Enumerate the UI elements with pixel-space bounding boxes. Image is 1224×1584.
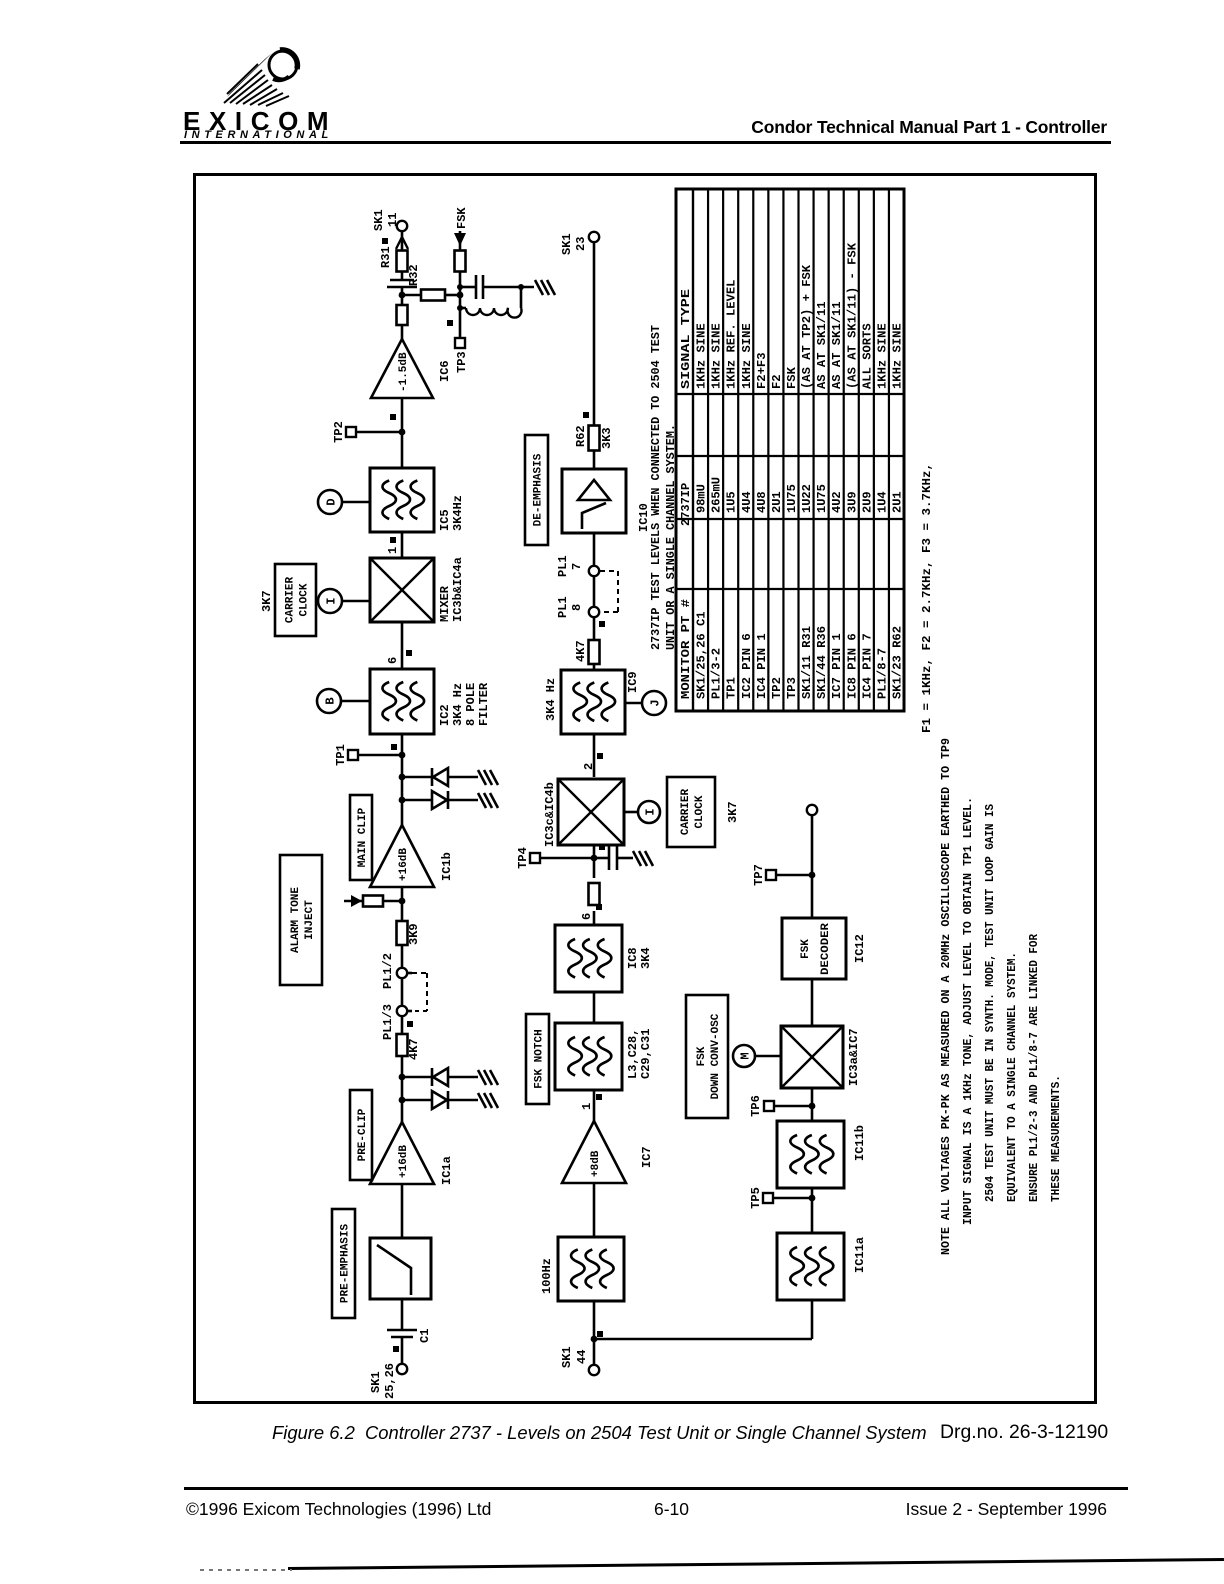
label FSK input	[454, 207, 469, 246]
svg-text:PL1/3: PL1/3	[381, 1004, 395, 1040]
svg-text:I: I	[325, 597, 339, 604]
svg-text:2737IP: 2737IP	[679, 483, 693, 526]
boxed label CARRIER CLOCK	[275, 564, 316, 636]
svg-text:TP1: TP1	[334, 744, 348, 766]
svg-text:2737IP TEST LEVELS WHEN CONNEC: 2737IP TEST LEVELS WHEN CONNECTED TO 250…	[649, 325, 663, 650]
boxed label DE-EMPHASIS	[525, 435, 548, 545]
svg-text:4U4: 4U4	[740, 491, 754, 513]
svg-text:TP1: TP1	[725, 677, 739, 699]
node: alarm tone inject junction	[399, 898, 406, 905]
svg-text:D: D	[325, 498, 339, 505]
svg-text:+8dB: +8dB	[590, 1150, 602, 1177]
svg-text:1U75: 1U75	[815, 484, 829, 513]
svg-text:IC6: IC6	[438, 360, 452, 382]
op-amp IC1a (+16dB)	[370, 1122, 434, 1184]
node: trap common	[518, 284, 524, 290]
svg-text:IC8: IC8	[626, 947, 640, 969]
boxed label CARRIER CLOCK (row 2)	[667, 777, 715, 847]
svg-text:UNIT OR A SINGLE CHANNEL SYSTE: UNIT OR A SINGLE CHANNEL SYSTEM.	[664, 424, 678, 650]
svg-text:+16dB: +16dB	[398, 848, 410, 881]
wire: alarm tone inject feed	[344, 895, 402, 907]
ground (FSK trap)	[535, 280, 543, 295]
capacitor C1	[387, 1329, 432, 1343]
svg-text:SK1: SK1	[560, 1346, 574, 1368]
svg-text:IC4 PIN 1: IC4 PIN 1	[755, 633, 769, 699]
svg-text:PRE-EMPHASIS: PRE-EMPHASIS	[340, 1223, 352, 1303]
wire: output arrow to SK1/11	[396, 237, 408, 249]
test point TP6	[749, 1095, 815, 1117]
svg-text:1KHz REF. LEVEL: 1KHz REF. LEVEL	[725, 280, 739, 390]
wire: dashed link PL1/2 - PL1/3	[407, 973, 427, 1011]
test point TP5	[749, 1187, 815, 1209]
resistor (FSK input)	[455, 251, 466, 272]
connector PL1/3	[381, 1004, 413, 1040]
svg-text:MIXER: MIXER	[438, 585, 452, 622]
svg-text:TP3: TP3	[455, 351, 469, 373]
node: FSK/R32 junction	[457, 292, 464, 299]
resistor 4K7 (PL1/3)	[397, 1034, 422, 1060]
pin 6 of IC2	[386, 650, 412, 664]
node D	[318, 490, 370, 514]
svg-text:B: B	[324, 697, 338, 704]
note: measurement conditions	[939, 738, 1063, 1255]
svg-text:SK1: SK1	[560, 233, 574, 255]
svg-text:FSK: FSK	[785, 366, 799, 389]
svg-text:4U2: 4U2	[830, 491, 844, 513]
svg-text:+16dB: +16dB	[398, 1145, 410, 1178]
FSK decoder IC12	[782, 918, 846, 979]
svg-text:IC11a: IC11a	[853, 1237, 867, 1273]
svg-text:IC4 PIN 7: IC4 PIN 7	[860, 633, 874, 699]
pin 1 of IC7	[580, 1094, 602, 1110]
svg-text:2504 TEST UNIT MUST BE IN SYNT: 2504 TEST UNIT MUST BE IN SYNTH. MODE, T…	[983, 804, 997, 1202]
filter IC11b	[777, 1121, 844, 1188]
test point TP1	[334, 744, 405, 766]
svg-text:FSK: FSK	[696, 1046, 708, 1066]
svg-text:IC7 PIN 1: IC7 PIN 1	[830, 633, 844, 699]
svg-text:6: 6	[386, 657, 400, 664]
svg-text:6: 6	[580, 913, 594, 920]
connector PL1/2	[381, 953, 407, 989]
svg-text:3K4: 3K4	[639, 947, 653, 969]
boxed label FSK DOWN CONV-OSC	[686, 995, 728, 1118]
svg-text:98mU: 98mU	[695, 484, 709, 513]
note: 2737IP test levels	[649, 325, 678, 650]
wire: branch down to FSK receive row	[594, 1338, 812, 1341]
svg-text:CARRIER: CARRIER	[680, 789, 692, 836]
svg-text:4K7: 4K7	[574, 640, 588, 662]
label MIXER IC3b&IC4a	[438, 557, 465, 622]
svg-text:1U75: 1U75	[785, 484, 799, 513]
svg-text:IC11b: IC11b	[853, 1125, 867, 1161]
connector SK1/23	[560, 232, 599, 255]
label L3,C28, C29,C31	[626, 1029, 653, 1079]
header title	[0, 117, 1107, 138]
node: R32 tap junction	[399, 292, 406, 299]
node I (carrier clock row 2)	[624, 801, 660, 823]
svg-text:L3,C28,: L3,C28,	[626, 1029, 640, 1079]
svg-text:TP7: TP7	[752, 864, 766, 886]
label IC8 3K4	[626, 947, 653, 969]
pre-emphasis shaping block	[370, 1238, 431, 1299]
connector PL1/7	[556, 555, 599, 577]
svg-text:TP6: TP6	[749, 1095, 763, 1117]
svg-text:IC1a: IC1a	[440, 1156, 454, 1185]
node I (carrier clock row 1)	[318, 589, 370, 613]
svg-text:F1 = 1KHz, F2 = 2.7KHz, F3 = 3: F1 = 1KHz, F2 = 2.7KHz, F3 = 3.7KHz,	[920, 463, 934, 733]
test point TP4	[516, 844, 605, 869]
svg-text:IC9: IC9	[626, 671, 640, 693]
svg-text:SIGNAL TYPE: SIGNAL TYPE	[679, 289, 693, 389]
mixer IC3c&IC4b	[558, 779, 624, 845]
boxed label FSK NOTCH	[526, 1014, 549, 1104]
svg-text:CLOCK: CLOCK	[299, 583, 311, 616]
connector PL1/8	[556, 596, 605, 627]
connector SK1/44	[560, 1331, 603, 1375]
svg-text:3K7: 3K7	[726, 801, 740, 823]
resistor 3K9	[397, 921, 422, 945]
svg-text:R32: R32	[407, 264, 421, 286]
wire: R32 branch down to FSK rail	[402, 290, 460, 301]
svg-text:2U9: 2U9	[860, 491, 874, 513]
svg-text:F2+F3: F2+F3	[755, 353, 769, 390]
svg-text:FSK NOTCH: FSK NOTCH	[534, 1029, 546, 1088]
svg-text:AS AT SK1/11: AS AT SK1/11	[815, 301, 829, 389]
filter IC8 3K4	[555, 925, 622, 992]
filter 100Hz	[558, 1237, 624, 1301]
test point TP3	[447, 320, 469, 373]
svg-text:PRE-CLIP: PRE-CLIP	[357, 1108, 369, 1161]
svg-text:1U5: 1U5	[725, 491, 739, 513]
svg-text:IC3c&IC4b: IC3c&IC4b	[543, 782, 557, 847]
diode clipper (main clip) to ground	[399, 768, 498, 809]
scan edge artifact line	[288, 1558, 1224, 1570]
svg-text:IC3b&IC4a: IC3b&IC4a	[451, 557, 465, 622]
svg-text:FSK: FSK	[455, 207, 469, 229]
resistor 4K7 (row 2)	[574, 640, 600, 664]
svg-text:8: 8	[570, 604, 584, 611]
boxed label PRE-EMPHASIS	[332, 1209, 355, 1318]
svg-text:SK1/11 R31: SK1/11 R31	[800, 626, 814, 699]
svg-text:3K7: 3K7	[260, 590, 274, 612]
filter FSK notch L3,C28,C29,C31	[555, 1023, 622, 1090]
svg-text:PL1/2: PL1/2	[381, 953, 395, 989]
svg-text:TP3: TP3	[785, 677, 799, 699]
svg-text:3K9: 3K9	[407, 923, 421, 945]
svg-text:25,26: 25,26	[383, 1363, 397, 1399]
filter IC11a	[777, 1233, 844, 1300]
svg-text:F2: F2	[770, 374, 784, 389]
resistor R62 3K3	[574, 425, 614, 450]
svg-text:ALARM TONE: ALARM TONE	[290, 887, 302, 953]
wire: row-1 main transmit rail	[401, 1338, 404, 1364]
svg-text:INJECT: INJECT	[304, 900, 316, 940]
boxed label MAIN CLIP	[350, 795, 372, 880]
svg-text:TP2: TP2	[770, 677, 784, 699]
svg-text:THESE MEASUREMENTS.: THESE MEASUREMENTS.	[1049, 1075, 1063, 1202]
pin 1 of IC4	[386, 537, 400, 554]
svg-text:(AS AT TP2) + FSK: (AS AT TP2) + FSK	[800, 264, 814, 389]
capacitor (FSK trap)	[460, 275, 534, 299]
svg-text:1KHz SINE: 1KHz SINE	[710, 323, 724, 389]
svg-text:8 POLE: 8 POLE	[464, 683, 478, 726]
svg-text:SK1: SK1	[372, 209, 386, 231]
node: SK1/44 branch junction	[591, 1336, 598, 1343]
ground (TP4 cap)	[633, 851, 641, 866]
svg-text:IC12: IC12	[853, 934, 867, 963]
svg-text:1U4: 1U4	[875, 491, 889, 513]
boxed label ALARM TONE INJECT	[280, 855, 322, 985]
svg-text:1KHz SINE: 1KHz SINE	[891, 323, 905, 389]
resistor (IC8 input)	[589, 883, 600, 905]
pin 2 (IC4b input)	[582, 753, 603, 770]
svg-text:1: 1	[580, 1103, 594, 1110]
svg-text:AS AT SK1/11: AS AT SK1/11	[830, 301, 844, 389]
node J	[625, 691, 666, 715]
svg-text:IC8 PIN 6: IC8 PIN 6	[845, 633, 859, 699]
svg-text:3K4 Hz: 3K4 Hz	[451, 683, 465, 726]
svg-text:IC2: IC2	[438, 704, 452, 726]
svg-text:M: M	[739, 1052, 753, 1059]
svg-text:CLOCK: CLOCK	[694, 795, 706, 828]
svg-text:3U9: 3U9	[845, 491, 859, 513]
svg-text:SK1: SK1	[369, 1371, 383, 1393]
node: cap branch junction	[457, 284, 463, 290]
svg-text:1KHz SINE: 1KHz SINE	[740, 323, 754, 389]
svg-text:DOWN CONV-OSC: DOWN CONV-OSC	[710, 1013, 722, 1099]
pin 6 of IC8	[580, 904, 602, 920]
connector (row-3 output pin)	[807, 805, 817, 815]
svg-text:DE-EMPHASIS: DE-EMPHASIS	[533, 453, 545, 526]
op-amp IC1b (+16dB)	[370, 825, 434, 887]
svg-text:SK1/25,26 C1: SK1/25,26 C1	[695, 611, 709, 699]
wire: FSK input rail	[459, 231, 462, 338]
svg-text:IC3a&IC7: IC3a&IC7	[847, 1028, 861, 1086]
svg-text:4K7: 4K7	[407, 1038, 421, 1060]
svg-text:TP2: TP2	[332, 421, 346, 443]
filter IC5 3K4Hz	[370, 468, 434, 532]
svg-text:265mU: 265mU	[710, 477, 724, 513]
test point TP7	[752, 864, 815, 886]
logo wordmark	[183, 106, 337, 137]
op-amp IC7 (+8dB)	[562, 1121, 626, 1183]
inductor (FSK trap coil)	[460, 287, 522, 318]
svg-text:7: 7	[570, 563, 584, 570]
svg-text:I: I	[644, 808, 658, 815]
wire: row-3 FSK rail	[811, 1301, 814, 1339]
svg-text:IC7: IC7	[640, 1146, 654, 1168]
svg-text:44: 44	[575, 1350, 589, 1364]
svg-text:3K3: 3K3	[600, 427, 614, 449]
footer text	[186, 1499, 1107, 1520]
monitor point table	[676, 189, 905, 711]
svg-text:SK1/44 R36: SK1/44 R36	[815, 626, 829, 699]
svg-text:EQUIVALENT TO A SINGLE CHANNEL: EQUIVALENT TO A SINGLE CHANNEL SYSTEM.	[1005, 952, 1019, 1202]
svg-text:SK1/23 R62: SK1/23 R62	[891, 626, 905, 699]
svg-text:R62: R62	[574, 425, 588, 447]
svg-text:MONITOR PT #: MONITOR PT #	[679, 599, 693, 699]
test point TP2	[332, 414, 405, 443]
svg-text:NOTE ALL VOLTAGES PK-PK AS MEA: NOTE ALL VOLTAGES PK-PK AS MEASURED ON A…	[939, 738, 953, 1255]
filter IC9 3K4Hz	[561, 670, 625, 734]
resistor (IC6 output)	[397, 305, 408, 325]
svg-text:-1.5dB: -1.5dB	[398, 352, 410, 392]
svg-text:R31: R31	[379, 246, 393, 268]
svg-text:1KHz SINE: 1KHz SINE	[695, 323, 709, 389]
svg-text:CARRIER: CARRIER	[285, 577, 297, 624]
drawing frame	[193, 173, 1097, 1404]
svg-text:4U8: 4U8	[755, 491, 769, 513]
svg-text:2U1: 2U1	[891, 491, 905, 513]
label IC5 3K4Hz	[438, 495, 465, 531]
svg-text:3K4Hz: 3K4Hz	[451, 495, 465, 531]
svg-text:PL1: PL1	[556, 555, 570, 577]
svg-text:C1: C1	[418, 1329, 432, 1343]
svg-text:1U22: 1U22	[800, 484, 814, 513]
svg-text:100Hz: 100Hz	[540, 1258, 554, 1294]
svg-text:1: 1	[386, 547, 400, 554]
svg-text:2: 2	[582, 763, 596, 770]
svg-text:TP4: TP4	[516, 847, 530, 869]
Exicom comet logo	[170, 30, 420, 160]
svg-text:ALL SORTS: ALL SORTS	[860, 323, 874, 389]
svg-text:TP5: TP5	[749, 1187, 763, 1209]
mixer IC3b&IC4a	[370, 558, 434, 622]
svg-text:J: J	[649, 699, 663, 706]
svg-text:PL1: PL1	[556, 596, 570, 618]
connector SK1 25,26	[369, 1346, 407, 1399]
resistor R31	[379, 238, 408, 272]
svg-text:1KHz SINE: 1KHz SINE	[875, 323, 889, 389]
footer rule	[184, 1487, 1128, 1490]
svg-text:C29,C31: C29,C31	[639, 1029, 653, 1079]
wire: row-2 receive rail	[593, 242, 596, 425]
node M (FSK down conv-osc)	[733, 1045, 781, 1067]
op-amp IC6 (-1.5dB)	[371, 339, 433, 398]
label IC2 3K4 Hz 8 POLE FILTER	[438, 682, 491, 726]
svg-text:IC2 PIN 6: IC2 PIN 6	[740, 633, 754, 699]
svg-text:MAIN CLIP: MAIN CLIP	[357, 807, 369, 867]
svg-text:FSK: FSK	[800, 939, 812, 959]
svg-text:(AS AT SK1/11) - FSK: (AS AT SK1/11) - FSK	[845, 242, 859, 389]
de-emphasis block IC10	[562, 469, 626, 533]
svg-text:INPUT SIGNAL IS A 1KHz TONE, A: INPUT SIGNAL IS A 1KHz TONE, ADJUST LEVE…	[961, 797, 975, 1225]
svg-text:ENSURE PL1/2-3 AND PL1/8-7 ARE: ENSURE PL1/2-3 AND PL1/8-7 ARE LINKED FO…	[1027, 933, 1041, 1202]
svg-text:3K4 Hz: 3K4 Hz	[544, 678, 558, 721]
figure caption	[272, 1422, 927, 1444]
diode clipper (pre-clip) to ground	[399, 1068, 498, 1109]
capacitor (TP4 to ground)	[594, 846, 633, 870]
svg-text:IC1b: IC1b	[440, 852, 454, 881]
svg-text:2U1: 2U1	[770, 491, 784, 513]
wire: dashed link PL1/8 - PL1/7	[600, 571, 618, 612]
svg-text:DECODER: DECODER	[820, 923, 832, 975]
svg-text:FILTER: FILTER	[477, 682, 491, 726]
svg-text:PL1/8-7: PL1/8-7	[875, 648, 889, 699]
mixer IC3a&IC7	[781, 1026, 843, 1088]
node B	[317, 689, 370, 713]
filter IC2 3K4Hz 8-pole	[370, 669, 434, 734]
svg-text:23: 23	[574, 237, 588, 251]
svg-text:IC5: IC5	[438, 509, 452, 531]
capacitor (series, output)	[387, 280, 417, 287]
node: coil branch junction	[457, 305, 463, 311]
svg-text:PL1/3-2: PL1/3-2	[710, 648, 724, 699]
boxed label PRE-CLIP	[350, 1090, 372, 1180]
connector SK1/11	[372, 209, 407, 231]
